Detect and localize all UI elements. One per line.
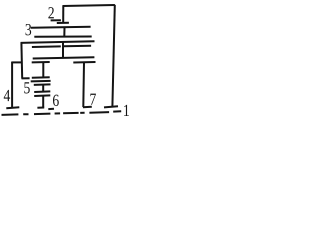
- capacitor plate P2: [32, 61, 50, 63]
- label 6: [53, 95, 59, 106]
- wire node 2 horizontal lead: [51, 19, 61, 21]
- terminal bar of node 7: [83, 106, 92, 109]
- wire top horizontal from node 2 riser to right side: [63, 5, 115, 6]
- label 5: [24, 82, 29, 93]
- wire vertical V3 from L3 down to plate P1: [62, 42, 64, 58]
- capacitor plate L4 right segment: [64, 45, 92, 48]
- terminal foot bar left of V6: [37, 107, 44, 109]
- capacitor plate B1: [32, 76, 50, 79]
- capacitor plate P1 long (shared left/right): [33, 57, 95, 58]
- label 3: [26, 24, 32, 35]
- label 4: [4, 90, 10, 101]
- capacitor plate B3: [34, 83, 51, 86]
- wire V7 from R2 down to terminal 7: [82, 62, 85, 107]
- wire V4 from P2 down to B1: [42, 62, 44, 77]
- capacitor plate C3: [34, 94, 50, 97]
- label 1: [124, 105, 129, 116]
- capacitor plate L4 left segment: [32, 45, 61, 48]
- capacitor C34 top plate L2: [34, 36, 91, 38]
- ground dashed line: [2, 111, 122, 115]
- capacitor plate R2 right: [73, 61, 95, 64]
- wire node 2 lead vertical riser: [62, 5, 64, 22]
- wire V5 from B3 down to C2: [42, 85, 44, 92]
- wire node 3 lead / capacitor C23 bottom plate: [31, 27, 91, 28]
- wire node 4 vertical to ground terminal: [11, 62, 13, 108]
- capacitor C23 top plate: [57, 22, 69, 24]
- label 7: [90, 94, 96, 105]
- wire V6 from C3 down to ground foot: [42, 96, 44, 108]
- terminal small bar under label 6: [48, 108, 54, 110]
- wire node 4 jog horizontal branch: [11, 61, 22, 63]
- capacitor plate C2: [34, 90, 50, 93]
- terminal plate of node 4 above ground: [6, 106, 19, 109]
- wire node 4 vertical from L3 down: [20, 42, 23, 78]
- wire from node4 vertical to center stack: [22, 77, 30, 79]
- wire node 4 lead / capacitor C34 bottom plate L3: [21, 41, 95, 43]
- capacitor plate B2: [31, 80, 51, 83]
- terminal bar of node 1: [104, 106, 118, 107]
- wire stub node3 down to plate L2: [63, 28, 65, 37]
- label 2: [48, 7, 53, 18]
- wire right vertical down to terminal 1: [112, 5, 114, 107]
